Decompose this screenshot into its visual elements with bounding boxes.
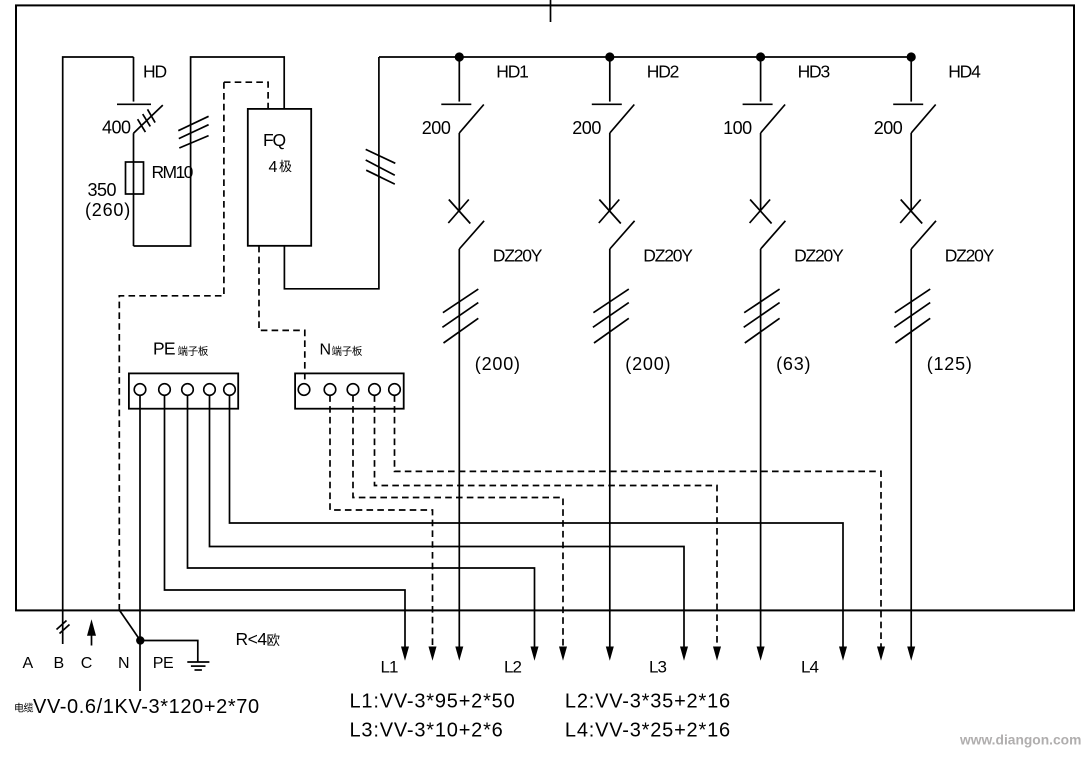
svg-text:(200): (200)	[625, 354, 671, 374]
breaker DZ20Y for HD2	[599, 133, 635, 249]
PE terminal 4	[204, 384, 216, 396]
label DZ20Y	[493, 246, 543, 266]
label N端子板	[320, 342, 363, 359]
wire: feeder HD4 to load	[907, 249, 915, 661]
svg-text:HD1: HD1	[496, 62, 528, 82]
node: bus junction HD3	[757, 53, 765, 61]
wire: feeder HD3 to load	[757, 249, 765, 661]
wire: to earth symbol	[140, 641, 198, 663]
switch HD (main knife switch)	[117, 57, 163, 133]
switch HD1	[441, 57, 484, 133]
svg-text:RM10: RM10	[152, 162, 194, 182]
svg-text:(260): (260)	[85, 200, 131, 220]
wire: diagonal into ground node	[119, 610, 140, 641]
N terminal board	[295, 373, 404, 408]
label L2 cable spec	[565, 691, 731, 713]
svg-text:DZ20Y: DZ20Y	[945, 246, 995, 266]
cable mark on incoming line	[57, 621, 70, 634]
label HD	[143, 62, 166, 82]
svg-text:DZ20Y: DZ20Y	[493, 246, 543, 266]
value 200	[874, 118, 903, 138]
PE terminal board	[129, 373, 238, 408]
value 200	[422, 118, 451, 138]
cable slashes on riser	[178, 116, 208, 148]
label HD3	[798, 62, 830, 82]
label R<4 ohm	[236, 629, 281, 649]
svg-text:HD: HD	[143, 62, 166, 82]
svg-text:100: 100	[723, 118, 752, 138]
svg-text:端子板: 端子板	[332, 345, 363, 358]
wire: N to L3 (dashed)	[375, 395, 722, 661]
wire: PE to L2	[188, 395, 539, 661]
wire: switch to fuse	[133, 133, 135, 246]
label L4	[801, 657, 818, 676]
cable slashes feeder HD1	[442, 289, 478, 343]
svg-text:PE: PE	[153, 339, 175, 359]
label L1 cable spec	[350, 691, 516, 713]
svg-text:L2:VV-3*35+2*16: L2:VV-3*35+2*16	[565, 691, 731, 713]
PE terminal 5	[224, 384, 236, 396]
breaker DZ20Y for HD1	[448, 133, 484, 249]
svg-text:A: A	[23, 655, 34, 672]
svg-text:电缆: 电缆	[14, 702, 33, 715]
PE terminal 3	[182, 384, 194, 396]
wire: incoming cable below panel (phase B)	[62, 610, 64, 644]
value 100	[723, 118, 752, 138]
device FQ (4-pole) box	[248, 109, 311, 246]
N terminal 3	[347, 384, 359, 396]
PE terminal 1	[134, 384, 146, 396]
svg-text:欧: 欧	[267, 633, 281, 648]
svg-text:N: N	[118, 655, 129, 672]
cable slashes feeder HD4	[894, 289, 930, 343]
wire: N to L4 (dashed)	[395, 395, 886, 661]
incoming supply line	[550, 0, 552, 22]
svg-text:200: 200	[422, 118, 451, 138]
N terminal 1	[298, 384, 310, 396]
svg-text:200: 200	[572, 118, 601, 138]
svg-text:L2: L2	[504, 657, 521, 676]
cable slashes feeder HD3	[744, 289, 780, 343]
switch HD3	[743, 57, 786, 133]
value 200	[572, 118, 601, 138]
svg-text:400: 400	[102, 118, 131, 138]
switch HD2	[592, 57, 635, 133]
phase arrow (C)	[87, 619, 96, 645]
label RM10	[152, 162, 194, 182]
svg-text:L3: L3	[649, 657, 666, 676]
wire: feeder HD2 to load	[606, 249, 614, 661]
cable slashes on bus riser	[366, 149, 396, 184]
wire: fuse bottom to riser	[134, 57, 285, 246]
wire: N to L1 (dashed)	[330, 395, 437, 661]
wire: PE to L3	[210, 395, 689, 661]
label DZ20Y	[945, 246, 995, 266]
svg-text:L1:VV-3*95+2*50: L1:VV-3*95+2*50	[350, 691, 516, 713]
svg-text:DZ20Y: DZ20Y	[643, 246, 693, 266]
label L1	[381, 657, 398, 676]
wire: main bus	[379, 56, 911, 58]
label N	[118, 655, 129, 672]
label DZ20Y	[794, 246, 844, 266]
wire: left riser to incoming cable	[63, 57, 134, 610]
earth ground symbol	[187, 662, 209, 670]
value (260)	[85, 200, 131, 220]
wire: PE to L4	[230, 395, 848, 661]
label L4 cable spec	[565, 720, 731, 742]
wire: feeder HD1 to load	[455, 249, 463, 661]
wire: dashed FQ bottom to N terminal board	[259, 246, 305, 384]
svg-text:PE: PE	[153, 655, 173, 672]
svg-text:DZ20Y: DZ20Y	[794, 246, 844, 266]
node: bus junction HD2	[606, 53, 614, 61]
svg-text:(125): (125)	[927, 354, 973, 374]
svg-text:(63): (63)	[776, 354, 811, 374]
svg-text:R<4: R<4	[236, 629, 268, 649]
N terminal 5	[389, 384, 401, 396]
label L3 cable spec	[350, 720, 504, 742]
wire: N to L2 (dashed)	[353, 395, 567, 661]
label PE	[153, 655, 173, 672]
label HD4	[948, 62, 981, 82]
label DZ20Y	[643, 246, 693, 266]
wire: PE to L1	[165, 395, 410, 661]
label 4极	[269, 159, 293, 176]
label HD2	[647, 62, 679, 82]
svg-text:www.diangon.com: www.diangon.com	[959, 733, 1081, 748]
label A	[23, 655, 34, 672]
svg-text:极: 极	[279, 159, 292, 174]
cable slashes feeder HD2	[593, 289, 629, 343]
svg-text:350: 350	[88, 180, 117, 200]
svg-text:端子板: 端子板	[178, 345, 209, 358]
svg-text:VV-0.6/1KV-3*120+2*70: VV-0.6/1KV-3*120+2*70	[33, 696, 260, 718]
svg-text:HD2: HD2	[647, 62, 679, 82]
node: bus junction HD1	[455, 53, 463, 61]
value 350	[88, 180, 117, 200]
label main cable spec	[14, 696, 260, 718]
svg-text:C: C	[81, 655, 92, 672]
value (63)	[776, 354, 811, 374]
value (200)	[475, 354, 521, 374]
node: bus junction HD4	[907, 53, 915, 61]
svg-text:HD4: HD4	[948, 62, 981, 82]
fuse RM10	[126, 162, 144, 194]
svg-text:FQ: FQ	[263, 130, 285, 150]
svg-text:L1: L1	[381, 657, 398, 676]
svg-text:L3:VV-3*10+2*6: L3:VV-3*10+2*6	[350, 720, 504, 742]
label B	[54, 655, 64, 672]
breaker DZ20Y for HD4	[900, 133, 936, 249]
svg-text:200: 200	[874, 118, 903, 138]
value 400	[102, 118, 131, 138]
svg-text:B: B	[54, 655, 64, 672]
svg-text:N: N	[320, 342, 331, 359]
label HD1	[496, 62, 528, 82]
N terminal 4	[369, 384, 381, 396]
svg-text:L4:VV-3*25+2*16: L4:VV-3*25+2*16	[565, 720, 731, 742]
label C	[81, 655, 92, 672]
N terminal 2	[324, 384, 336, 396]
wire: dashed N/PE run to ground node	[119, 82, 224, 610]
value (200)	[625, 354, 671, 374]
panel enclosure border	[16, 5, 1074, 610]
wire: dashed FQ top tap	[224, 82, 268, 109]
switch HD4	[893, 57, 936, 133]
svg-text:L4: L4	[801, 657, 818, 676]
PE terminal 2	[159, 384, 171, 396]
svg-text:(200): (200)	[475, 354, 521, 374]
breaker DZ20Y for HD3	[750, 133, 786, 249]
label L3	[649, 657, 666, 676]
wire: PE1 to ground node	[139, 395, 141, 637]
value (125)	[927, 354, 973, 374]
label L2	[504, 657, 521, 676]
wire: FQ bottom to bus riser	[284, 57, 379, 289]
label FQ	[263, 130, 285, 150]
wire: ground electrode lead	[139, 641, 141, 692]
label PE端子板	[153, 339, 209, 359]
svg-text:HD3: HD3	[798, 62, 830, 82]
watermark	[959, 733, 1081, 748]
node: ground junction	[137, 637, 144, 644]
